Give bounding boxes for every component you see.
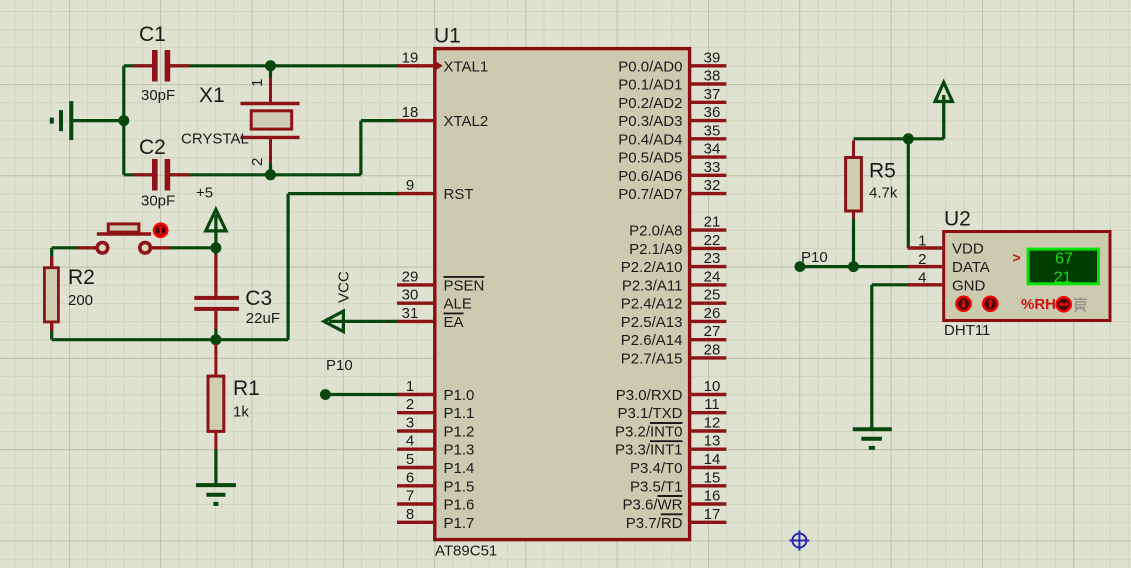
svg-text:P3.2/INT0: P3.2/INT0 — [615, 424, 683, 441]
pin 1 P1.0 (U1 left) — [397, 378, 474, 404]
svg-text:P0.2/AD2: P0.2/AD2 — [618, 95, 682, 112]
svg-text:AT89C51: AT89C51 — [435, 543, 497, 560]
display humidity value 67 — [1055, 251, 1073, 268]
svg-text:1: 1 — [249, 79, 266, 87]
svg-text:19: 19 — [402, 49, 419, 66]
wire R2 bottom vertical — [50, 331, 53, 340]
wire R5 top row — [854, 137, 944, 140]
svg-text:31: 31 — [402, 305, 419, 322]
svg-text:2: 2 — [918, 251, 926, 268]
icon humidity-down button — [957, 297, 971, 311]
svg-text:6: 6 — [406, 469, 414, 486]
svg-text:+5: +5 — [196, 185, 213, 202]
pin 26 P2.5/A13 (U1 right) — [621, 305, 727, 331]
wire XTAL1 net: C1 right to pin 19 — [170, 64, 399, 67]
sheet origin marker — [789, 531, 809, 551]
svg-text:4: 4 — [918, 269, 926, 286]
svg-text:RST: RST — [444, 186, 474, 203]
pin 35 P0.4/AD4 (U1 right) — [618, 122, 726, 148]
svg-text:22: 22 — [704, 232, 721, 249]
junction dot C3 bottom / R1 top — [210, 334, 221, 345]
pin 19 XTAL1 (U1 left) — [397, 49, 488, 75]
label R2 — [68, 266, 95, 289]
svg-text:5: 5 — [406, 451, 414, 468]
value CRYSTAL — [181, 131, 249, 148]
pin 13 P3.3/INT1 (U1 right) — [615, 433, 726, 459]
svg-text:14: 14 — [704, 451, 721, 468]
svg-text:VCC: VCC — [336, 271, 353, 303]
pin 21 P2.0/A8 (U1 right) — [629, 214, 726, 240]
label C3 — [245, 287, 272, 310]
pin 5 P1.4 (U1 left) — [397, 451, 474, 477]
wire R2 top vertical — [50, 248, 53, 257]
svg-text:8: 8 — [406, 506, 414, 523]
svg-text:P3.4/T0: P3.4/T0 — [630, 460, 683, 477]
terminal P10 (to U1 P1.0) — [320, 389, 331, 400]
svg-text:P0.0/AD0: P0.0/AD0 — [618, 58, 682, 75]
display temperature value 21 — [1054, 269, 1072, 286]
junction dot left vertical/ground — [118, 115, 129, 126]
value 1k — [233, 404, 249, 421]
svg-text:P2.7/A15: P2.7/A15 — [621, 350, 683, 367]
label U1 — [434, 25, 461, 48]
label P10 (left) — [326, 357, 353, 374]
svg-text:22uF: 22uF — [246, 310, 280, 327]
pin 2 DATA (U2) — [908, 251, 990, 276]
pin 30 ALE (U1 left) — [397, 287, 472, 313]
svg-text:17: 17 — [704, 506, 721, 523]
svg-text:VDD: VDD — [952, 241, 984, 258]
wire VDD vertical — [907, 139, 910, 248]
svg-text:DHT11: DHT11 — [944, 322, 990, 339]
wire DATA P10 to pin 2 — [800, 265, 909, 268]
svg-text:4.7k: 4.7k — [869, 185, 898, 202]
svg-text:P2.0/A8: P2.0/A8 — [629, 223, 682, 240]
svg-text:P2.6/A14: P2.6/A14 — [621, 332, 683, 349]
svg-text:P3.7/RD: P3.7/RD — [626, 515, 683, 532]
wire C3 top lead green — [214, 248, 217, 256]
svg-text:PSEN: PSEN — [444, 277, 485, 294]
svg-text:13: 13 — [704, 433, 721, 450]
svg-text:P1.4: P1.4 — [444, 460, 475, 477]
svg-text:15: 15 — [704, 469, 721, 486]
pin 1 VDD (U2) — [908, 233, 984, 258]
label U2 — [944, 208, 971, 231]
svg-text:4: 4 — [406, 433, 414, 450]
crystal X1 — [241, 78, 300, 163]
svg-text:P0.6/AD6: P0.6/AD6 — [618, 168, 682, 185]
U2 LCD display — [1028, 249, 1098, 284]
wire power arrow tail (U2 VDD net) — [942, 95, 945, 139]
wire GND to pin 4 — [872, 283, 909, 286]
junction dot VDD net — [903, 133, 914, 144]
svg-text:26: 26 — [704, 305, 721, 322]
pin 33 P0.6/AD6 (U1 right) — [618, 159, 726, 185]
svg-text:P3.6/WR: P3.6/WR — [622, 497, 682, 514]
label R1 — [233, 377, 260, 400]
ground (below R1) — [196, 485, 236, 504]
svg-text:30pF: 30pF — [141, 193, 175, 210]
wire C3 bottom lead green — [214, 328, 217, 340]
pin 4 P1.3 (U1 left) — [397, 433, 474, 459]
wire C2 right / crystal bottom row — [170, 173, 361, 176]
pin 15 P3.5/T1 (U1 right) — [630, 469, 726, 495]
svg-text:24: 24 — [704, 268, 721, 285]
terminal P10 (to U2 DATA) — [795, 261, 806, 272]
svg-text:1: 1 — [918, 233, 926, 250]
svg-text:U2: U2 — [944, 208, 971, 231]
svg-text:30pF: 30pF — [141, 87, 175, 104]
pin number 1 (X1) — [249, 79, 266, 87]
svg-text:P1.1: P1.1 — [444, 405, 475, 422]
pin 10 P3.0/RXD (U1 right) — [616, 378, 727, 404]
svg-text:9: 9 — [406, 177, 414, 194]
pin 37 P0.2/AD2 (U1 right) — [618, 86, 726, 112]
label +5 — [196, 185, 213, 202]
svg-text:P2.5/A13: P2.5/A13 — [621, 314, 683, 331]
wire P1.0 terminal to pin 1 — [325, 393, 399, 396]
svg-text:21: 21 — [704, 214, 721, 231]
value 4.7k — [869, 185, 898, 202]
wire VCC arrow to EA pin 31 — [329, 320, 399, 323]
junction dot +5 / C3 top — [210, 242, 221, 253]
junction dot crystal top — [265, 60, 276, 71]
svg-text:U1: U1 — [434, 25, 461, 48]
wire +5 arrow tail — [214, 215, 217, 248]
svg-text:P1.6: P1.6 — [444, 497, 475, 514]
pin 28 P2.7/A15 (U1 right) — [621, 341, 727, 367]
pin 31 EA (U1 left) — [397, 305, 464, 331]
pin 29 PSEN (U1 left) — [397, 268, 484, 294]
svg-text:35: 35 — [704, 122, 721, 139]
button interactive toggle marker — [154, 224, 167, 237]
label X1 — [199, 84, 225, 107]
svg-text:P3.0/RXD: P3.0/RXD — [616, 387, 683, 404]
svg-text:R2: R2 — [68, 266, 95, 289]
svg-text:200: 200 — [68, 292, 93, 309]
label %RH — [1021, 296, 1056, 313]
svg-text:P1.3: P1.3 — [444, 442, 475, 459]
pin 2 P1.1 (U1 left) — [397, 396, 474, 422]
svg-text:P2.4/A12: P2.4/A12 — [621, 296, 683, 313]
wire R1 bottom to ground — [214, 448, 217, 485]
push button (reset) — [78, 224, 170, 253]
svg-text:C3: C3 — [245, 287, 272, 310]
value DHT11 — [944, 322, 990, 339]
wire R2 top to button — [52, 246, 79, 249]
capacitor C1 — [134, 50, 190, 82]
XTAL1 clock arrow marker — [435, 61, 443, 71]
svg-text:P0.3/AD3: P0.3/AD3 — [618, 113, 682, 130]
pin 8 P1.7 (U1 left) — [397, 506, 474, 532]
svg-text:7: 7 — [406, 488, 414, 505]
svg-text:37: 37 — [704, 86, 721, 103]
icon humidity-up button — [983, 297, 997, 311]
pin 9 RST (U1 left) — [397, 177, 474, 203]
pin 12 P3.2/INT0 (U1 right) — [615, 415, 726, 441]
label VCC — [336, 271, 353, 303]
svg-text:ALE: ALE — [444, 296, 472, 313]
svg-text:P2.3/A11: P2.3/A11 — [622, 277, 683, 294]
svg-text:R5: R5 — [869, 160, 896, 183]
pin 17 P3.7/RD (U1 right) — [626, 506, 727, 532]
value 30pF (C1) — [141, 87, 175, 104]
label C1 — [139, 23, 166, 46]
svg-text:P10: P10 — [326, 357, 353, 374]
display cursor &gt; — [1013, 250, 1021, 266]
wire C2 left segment — [124, 173, 152, 176]
pin 4 GND (U2) — [908, 269, 986, 294]
pin 16 P3.6/WR (U1 right) — [622, 488, 726, 514]
svg-text:30: 30 — [402, 287, 419, 304]
svg-text:3: 3 — [406, 415, 414, 432]
svg-text:67: 67 — [1055, 251, 1073, 268]
svg-text:P3.5/T1: P3.5/T1 — [630, 478, 683, 495]
svg-text:16: 16 — [704, 488, 721, 505]
svg-text:38: 38 — [704, 68, 721, 85]
svg-text:P1.0: P1.0 — [444, 387, 475, 404]
wire GND vertical — [870, 285, 873, 429]
junction dot R5/DATA — [848, 261, 859, 272]
svg-text:>: > — [1013, 250, 1021, 266]
value 22uF — [246, 310, 280, 327]
svg-text:1k: 1k — [233, 404, 249, 421]
svg-text:2: 2 — [406, 396, 414, 413]
svg-text:GND: GND — [952, 277, 986, 294]
svg-text:P3.3/INT1: P3.3/INT1 — [615, 442, 683, 459]
wire XTAL2 horizontal to pin 18 — [361, 119, 399, 122]
svg-text:X1: X1 — [199, 84, 225, 107]
capacitor C2 — [134, 159, 190, 191]
svg-text:10: 10 — [704, 378, 721, 395]
svg-text:R1: R1 — [233, 377, 260, 400]
value 200 — [68, 292, 93, 309]
svg-text:25: 25 — [704, 287, 721, 304]
svg-text:27: 27 — [704, 323, 721, 340]
IC U1 body — [435, 49, 690, 540]
pin 23 P2.2/A10 (U1 right) — [621, 250, 727, 276]
sensor U2 body — [944, 232, 1110, 321]
svg-text:1: 1 — [406, 378, 414, 395]
wire crystal pin 1 to XTAL1 net — [269, 66, 272, 78]
pin 34 P0.5/AD5 (U1 right) — [618, 141, 726, 167]
svg-text:29: 29 — [402, 268, 419, 285]
svg-text:P10: P10 — [801, 249, 828, 266]
pin 24 P2.3/A11 (U1 right) — [622, 268, 726, 294]
svg-text:2: 2 — [249, 158, 266, 166]
resistor R1 — [208, 344, 224, 449]
junction dot crystal bottom — [265, 169, 276, 180]
resistor R2 — [44, 257, 58, 331]
power VCC arrow — [324, 311, 344, 331]
svg-text:P1.5: P1.5 — [444, 478, 475, 495]
svg-text:P0.7/AD7: P0.7/AD7 — [618, 186, 682, 203]
svg-text:XTAL1: XTAL1 — [444, 58, 489, 75]
svg-text:XTAL2: XTAL2 — [444, 113, 489, 130]
pin number 2 (X1) — [249, 158, 266, 166]
pin 18 XTAL2 (U1 left) — [397, 104, 488, 130]
wire XTAL2 vertical — [359, 121, 362, 175]
icon temperature toggle button — [1057, 297, 1071, 311]
svg-text:32: 32 — [704, 177, 721, 194]
svg-text:P0.5/AD5: P0.5/AD5 — [618, 150, 682, 167]
pin 39 P0.0/AD0 (U1 right) — [618, 49, 726, 75]
pin 3 P1.2 (U1 left) — [397, 415, 474, 441]
pin 38 P0.1/AD1 (U1 right) — [618, 68, 726, 94]
svg-text:CRYSTAL: CRYSTAL — [181, 131, 249, 148]
wire crystal pin 2 to C2 net — [269, 163, 272, 175]
pin 25 P2.4/A12 (U1 right) — [621, 287, 727, 313]
svg-text:C1: C1 — [139, 23, 166, 46]
svg-text:P2.1/A9: P2.1/A9 — [629, 241, 682, 258]
svg-text:P0.1/AD1: P0.1/AD1 — [618, 77, 682, 94]
wire left vertical C1-C2 — [122, 66, 125, 175]
svg-text:%RH: %RH — [1021, 296, 1056, 313]
wire ground to left vertical — [72, 119, 124, 122]
pin 36 P0.3/AD3 (U1 right) — [618, 104, 726, 130]
svg-text:C2: C2 — [139, 136, 166, 159]
wire button to +5 junction — [170, 246, 216, 249]
resistor R5 — [846, 140, 862, 218]
value AT89C51 — [435, 543, 497, 560]
svg-text:P1.7: P1.7 — [444, 515, 475, 532]
svg-text:P2.2/A10: P2.2/A10 — [621, 259, 683, 276]
wire R5 bottom to DATA — [852, 219, 855, 267]
svg-text:36: 36 — [704, 104, 721, 121]
wire XTAL1 net: C1 left segment — [124, 64, 152, 67]
wire reset net bottom row — [52, 338, 288, 341]
svg-text:11: 11 — [704, 396, 720, 413]
ground (below U2 GND) — [853, 429, 892, 448]
svg-text:P1.2: P1.2 — [444, 424, 475, 441]
pin 7 P1.6 (U1 left) — [397, 488, 474, 514]
label R5 — [869, 160, 896, 183]
label P10 (right) — [801, 249, 828, 266]
ground (left of C1/C2) — [52, 101, 72, 140]
svg-text:23: 23 — [704, 250, 721, 267]
capacitor C3 — [194, 255, 239, 330]
svg-text:39: 39 — [704, 49, 721, 66]
wire RST horizontal to pin 9 — [288, 192, 399, 195]
svg-text:DATA: DATA — [952, 259, 990, 276]
pin 22 P2.1/A9 (U1 right) — [629, 232, 726, 258]
svg-text:34: 34 — [704, 141, 721, 158]
svg-text:33: 33 — [704, 159, 721, 176]
pin 32 P0.7/AD7 (U1 right) — [618, 177, 726, 203]
svg-text:EA: EA — [444, 314, 464, 331]
grey CJK character label — [1074, 297, 1088, 312]
pin 11 P3.1/TXD (U1 right) — [617, 396, 726, 422]
svg-text:P0.4/AD4: P0.4/AD4 — [618, 131, 682, 148]
wire RST vertical — [287, 194, 290, 340]
svg-text:12: 12 — [704, 415, 721, 432]
value 30pF (C2) — [141, 193, 175, 210]
svg-text:P3.1/TXD: P3.1/TXD — [617, 405, 682, 422]
pin 14 P3.4/T0 (U1 right) — [630, 451, 726, 477]
svg-text:28: 28 — [704, 341, 721, 358]
power +5 arrow — [206, 210, 226, 231]
svg-text:21: 21 — [1054, 269, 1072, 286]
pin 27 P2.6/A14 (U1 right) — [621, 323, 727, 349]
pin 6 P1.5 (U1 left) — [397, 469, 474, 495]
svg-text:18: 18 — [402, 104, 419, 121]
power arrow (U2 VDD) — [935, 82, 952, 101]
label C2 — [139, 136, 166, 159]
